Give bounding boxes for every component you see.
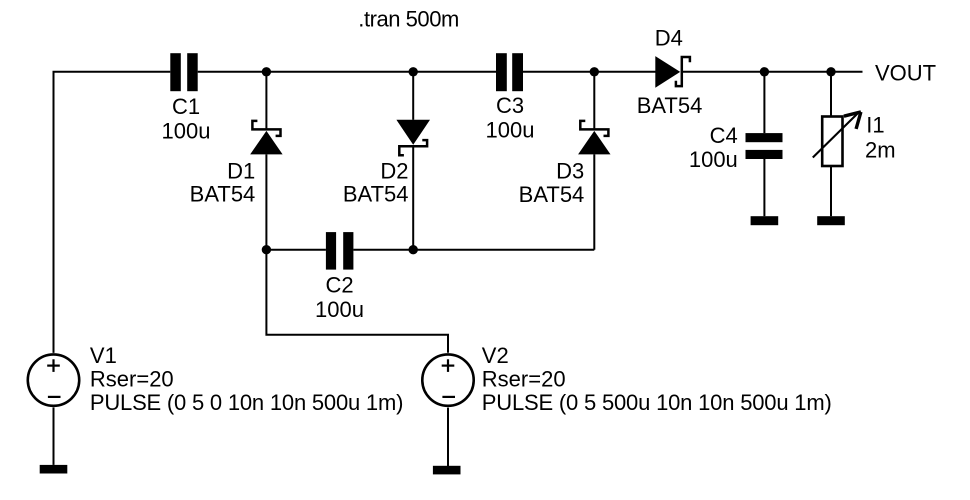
svg-text:Rser=20: Rser=20 (90, 367, 174, 392)
svg-text:BAT54: BAT54 (190, 182, 256, 207)
wire V1 minus to ground (53, 407, 55, 465)
svg-text:D4: D4 (655, 25, 683, 50)
wire D3 top stub (593, 72, 595, 129)
svg-text:D1: D1 (227, 158, 255, 183)
wire V2 minus to ground (447, 408, 449, 466)
current load I1 (box with diagonal arrow) (813, 112, 896, 166)
node junction dot at D2/C2 (409, 245, 418, 254)
wire from V1 plus up and right to C1 left plate (54, 72, 171, 353)
svg-text:C2: C2 (325, 273, 353, 298)
voltage source V1 (28, 343, 404, 415)
ground under C4 (751, 216, 779, 225)
ground under V2 (433, 466, 461, 475)
wire from C3 right plate to D4 anode (523, 71, 656, 73)
wire C4 top stub (763, 72, 765, 133)
wire C4 bottom to ground (763, 159, 765, 216)
svg-text:V2: V2 (482, 343, 509, 368)
svg-text:100u: 100u (486, 118, 535, 143)
node junction dot at C4 top (top rail) (760, 67, 769, 76)
wire from D4 cathode to VOUT (682, 71, 863, 73)
svg-text:Rser=20: Rser=20 (482, 367, 566, 392)
directive .tran 500m (358, 6, 459, 31)
node junction dot at D1/C2 (262, 245, 271, 254)
voltage source V2 (422, 343, 832, 415)
wire C2 row left segment (266, 249, 326, 251)
node VOUT label (875, 61, 936, 86)
wire D2 top stub (412, 72, 414, 120)
wire I1 bottom to ground (830, 166, 832, 216)
svg-text:PULSE (0 5 0 10n 10n 500u 1m): PULSE (0 5 0 10n 10n 500u 1m) (90, 390, 404, 415)
ground under I1 (817, 216, 845, 225)
node junction dot at D3 top (top rail) (590, 67, 599, 76)
svg-text:2m: 2m (865, 138, 896, 163)
node junction dot at D2 top (top rail) (409, 67, 418, 76)
diode D2 BAT54 (vertical, pointing down) (343, 120, 430, 207)
diode D3 BAT54 (vertical, pointing up) (519, 121, 611, 207)
node junction dot at C1/D1 (top rail) (262, 67, 271, 76)
svg-text:D3: D3 (556, 158, 584, 183)
wire C2 row right segment to D3 (353, 249, 594, 251)
wire I1 top stub (830, 72, 832, 117)
wire D1 anode down to C2 row (265, 154, 267, 249)
svg-text:I1: I1 (866, 113, 884, 138)
svg-text:BAT54: BAT54 (519, 182, 585, 207)
svg-text:100u: 100u (689, 147, 738, 172)
wire D1 top stub (265, 72, 267, 129)
capacitor C3 (486, 53, 535, 143)
node junction dot at I1 top (top rail) (826, 67, 835, 76)
diode D4 BAT54 (horizontal, pointing right) (637, 25, 703, 118)
svg-text:100u: 100u (315, 297, 364, 322)
svg-text:C3: C3 (496, 93, 524, 118)
ground under V1 (40, 465, 68, 474)
svg-text:V1: V1 (90, 343, 117, 368)
capacitor C2 (315, 232, 364, 322)
svg-text:C1: C1 (172, 94, 200, 119)
wire from C2 row down and right to V2 plus (266, 250, 448, 353)
diode D1 BAT54 (vertical, pointing up) (190, 121, 283, 207)
svg-text:BAT54: BAT54 (637, 93, 703, 118)
svg-text:VOUT: VOUT (875, 61, 936, 86)
capacitor C1 (162, 53, 211, 143)
svg-text:100u: 100u (162, 119, 211, 144)
svg-text:D2: D2 (380, 158, 408, 183)
svg-text:C4: C4 (710, 123, 738, 148)
wire D3 anode down then left along C2 row (593, 154, 595, 249)
wire D2 cathode down to C2 row (412, 146, 414, 249)
wire from C1 right plate to C3 left plate (198, 71, 496, 73)
svg-text:.tran 500m: .tran 500m (358, 6, 459, 31)
svg-text:BAT54: BAT54 (343, 182, 409, 207)
svg-text:PULSE (0 5 500u 10n 10n 500u 1: PULSE (0 5 500u 10n 10n 500u 1m) (482, 390, 832, 415)
capacitor C4 (689, 123, 783, 172)
